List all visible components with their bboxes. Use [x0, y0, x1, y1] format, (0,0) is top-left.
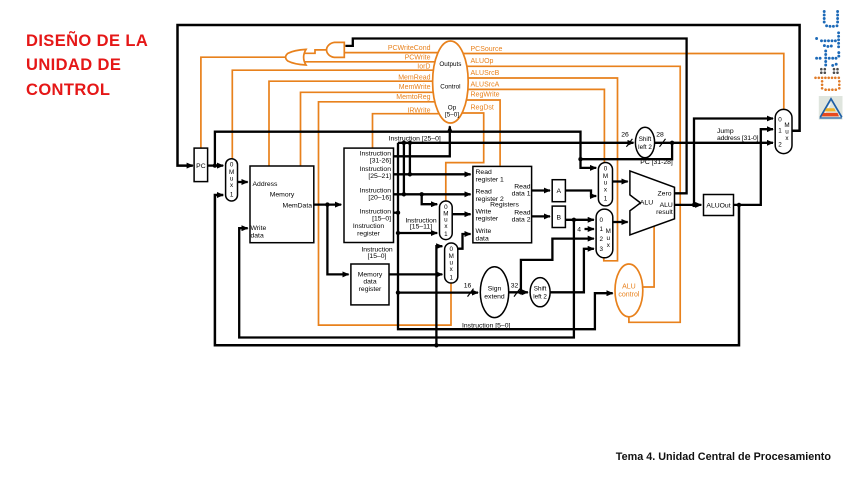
wire constant 4 to ALUSrcB mux input 1 [585, 228, 594, 230]
svg-text:Instruction: Instruction [360, 188, 392, 195]
wire PC bus (PC up over top to ALUSrcA and PC[31-28]) [215, 132, 581, 166]
wire ALUOut output to PC source mux input 1 [734, 129, 774, 205]
wire B register to memory write data [239, 220, 574, 338]
svg-text:0: 0 [604, 166, 608, 173]
svg-text:data: data [363, 279, 376, 286]
svg-text:register: register [359, 286, 382, 293]
wire read data 2 to B register [532, 215, 550, 217]
wire PCWriteCond (control to AND gate) [345, 52, 440, 54]
wire ALUSrcB (control to ALUSrcB mux bottom) [465, 78, 618, 261]
svg-text:Registers: Registers [490, 202, 519, 209]
OR gate (PCWrite | AND) [286, 49, 306, 65]
svg-text:Memory: Memory [270, 192, 295, 199]
svg-text:Read: Read [476, 169, 492, 176]
svg-text:ALU: ALU [660, 202, 673, 209]
wire Instruction[20-16] to read register 2 [394, 193, 471, 195]
ALUOut register [704, 195, 734, 216]
svg-text:MemRead: MemRead [398, 74, 430, 81]
wire shift left 2 output to ALUSrcB mux input 3 [550, 249, 594, 292]
svg-text:[25–21]: [25–21] [368, 173, 391, 180]
svg-text:4: 4 [577, 227, 581, 234]
oval shift left 2 (ALU src) [530, 278, 550, 307]
wire sign extend output to shift left 2 [509, 291, 528, 293]
svg-text:IorD: IorD [417, 63, 430, 70]
footer [616, 451, 831, 463]
svg-text:Jump: Jump [717, 128, 734, 135]
svg-text:[20–16]: [20–16] [368, 195, 391, 202]
wire MemtoReg (control to MemtoReg mux bottom) [319, 102, 452, 325]
svg-text:ALUSrcB: ALUSrcB [471, 70, 500, 77]
svg-text:Read: Read [476, 189, 492, 196]
wire ALUOut to MemtoReg mux input 0 [436, 246, 442, 345]
svg-text:32: 32 [511, 283, 519, 290]
svg-text:register: register [357, 230, 380, 237]
svg-text:Write: Write [251, 225, 267, 232]
svg-text:3: 3 [600, 246, 604, 253]
svg-text:B: B [557, 215, 562, 222]
wire memory data register output to MemtoReg mux input 1 [389, 273, 442, 275]
svg-text:IRWrite: IRWrite [407, 108, 430, 115]
wire PCWrite (control to OR gate) [304, 61, 437, 63]
mux RegDst [440, 201, 453, 240]
title [26, 29, 148, 103]
svg-text:[31-26]: [31-26] [370, 157, 391, 164]
wire PC source mux output loop (mux output around top to PC input) [178, 25, 800, 166]
wire MemRead (control to memory top) [269, 81, 434, 165]
B register [552, 206, 565, 227]
wire ALUSrcA (control to ALUSrcA mux top) [463, 89, 604, 162]
svg-text:MemWrite: MemWrite [399, 84, 431, 91]
svg-text:data 1: data 1 [512, 191, 531, 198]
svg-text:address [31-0]: address [31-0] [717, 135, 759, 142]
wire Zero to AND gate [345, 39, 686, 194]
svg-text:A: A [557, 188, 562, 195]
A register [552, 180, 565, 202]
wire IorD (control to IorD mux top) [232, 70, 435, 158]
svg-text:Address: Address [253, 181, 279, 188]
svg-text:left 2: left 2 [533, 294, 547, 301]
svg-text:Instruction: Instruction [360, 166, 392, 173]
svg-text:RegWrite: RegWrite [471, 92, 500, 99]
logo dark dot clusters [820, 68, 839, 74]
wire A register to ALUSrcA mux input 1 [565, 191, 596, 197]
svg-text:16: 16 [464, 283, 472, 290]
wire MemWrite (control to memory top) [301, 92, 437, 165]
mux MemtoReg [445, 243, 458, 283]
svg-text:[15–0]: [15–0] [368, 253, 387, 260]
oval ALU control [615, 264, 643, 317]
logo dotted glyph 2 (blue) [815, 31, 840, 48]
wire ALU result to ALUOut register [675, 204, 702, 206]
svg-text:result: result [656, 209, 673, 216]
svg-text:PCSource: PCSource [471, 46, 503, 53]
svg-text:1: 1 [778, 127, 782, 134]
svg-text:2: 2 [778, 142, 782, 149]
svg-text:26: 26 [621, 132, 629, 139]
svg-text:28: 28 [656, 132, 664, 139]
label Instruction [15-11] [405, 217, 437, 230]
memory box [250, 166, 314, 243]
svg-text:PCWrite: PCWrite [405, 55, 431, 62]
oval sign extend [480, 267, 508, 318]
svg-text:PC [31-28]: PC [31-28] [640, 159, 673, 166]
wire RegWrite (control to registers top) [460, 100, 500, 166]
memory data register box [351, 264, 389, 305]
wire AND output to OR input [305, 50, 327, 53]
svg-text:PCWriteCond: PCWriteCond [388, 45, 431, 52]
wire ALUSrcB mux output to ALU [613, 221, 628, 223]
wire IorD mux output to memory address [238, 181, 248, 183]
svg-text:0: 0 [449, 246, 453, 253]
wire Instruction[15-0] riser and Instruction[5-0] to ALU control [398, 143, 613, 329]
wire ALUSrcA mux output to ALU [613, 180, 628, 182]
svg-text:left 2: left 2 [638, 144, 652, 151]
svg-text:[15–0]: [15–0] [372, 216, 391, 223]
svg-text:Write: Write [476, 208, 492, 215]
svg-text:Instruction: Instruction [353, 223, 385, 230]
wire ALU result to PC source mux input 0 [694, 119, 773, 205]
ALU [630, 171, 675, 235]
svg-text:Instruction [5–0]: Instruction [5–0] [462, 322, 510, 329]
svg-text:1: 1 [449, 274, 453, 281]
control unit oval [433, 41, 469, 123]
svg-text:Outputs: Outputs [439, 61, 461, 68]
mux ALUSrcA [598, 163, 612, 206]
mux PC source [775, 109, 792, 153]
logo dotted glyph U (blue) [823, 10, 839, 28]
svg-text:register: register [476, 216, 499, 223]
svg-text:MemData: MemData [283, 203, 313, 210]
svg-text:Zero: Zero [658, 191, 672, 198]
wire Instruction[15-0] to sign extend [398, 291, 478, 293]
wire MemData to instruction register [314, 203, 341, 205]
wire Instruction[25-0] into shift left 2 [398, 142, 634, 144]
instruction register box [344, 148, 394, 242]
AND gate (PCWriteCond & Zero) [327, 42, 345, 57]
svg-text:register 1: register 1 [476, 176, 505, 183]
svg-text:Instruction: Instruction [360, 150, 392, 157]
svg-text:1: 1 [230, 191, 234, 198]
svg-text:0: 0 [600, 217, 604, 224]
svg-text:0: 0 [230, 162, 234, 169]
mux ALUSrcB [596, 209, 613, 258]
svg-text:Read: Read [514, 209, 530, 216]
svg-text:Shift: Shift [534, 286, 547, 293]
wire RegDst mux output to write register [452, 213, 470, 215]
wire Instruction[31-26] to control (Op[5-0]) [394, 126, 450, 156]
PC register [194, 148, 208, 182]
wire riser Instruction[25-21] tap [409, 143, 411, 175]
svg-text:PC: PC [196, 163, 206, 170]
svg-text:ALU: ALU [622, 283, 636, 290]
svg-text:Op: Op [448, 104, 457, 111]
wire MemData to memory data register [327, 205, 348, 275]
wire Instruction[20-16] branch to RegDst mux input 0 [422, 194, 438, 204]
wire Instruction[15-11] to RegDst mux input 1 [398, 232, 437, 234]
wire MemtoReg mux output to write data [458, 234, 471, 249]
svg-text:Control: Control [440, 83, 460, 90]
wire B register to ALUSrcB mux input 0 [565, 219, 594, 221]
svg-text:1: 1 [604, 196, 608, 203]
wire sign extend output to ALUSrcB mux input 2 [521, 239, 594, 293]
label Instruction [15-0] below IR [361, 247, 393, 261]
wire PC output to IorD mux input 0 [208, 164, 224, 166]
svg-text:extend: extend [484, 294, 505, 301]
wire ALU control output (ALU control oval to ALU bottom) [642, 226, 654, 287]
logo dotted glyph 3 (blue) [815, 50, 840, 67]
svg-text:Instruction [25–0]: Instruction [25–0] [389, 135, 441, 142]
svg-text:RegDst: RegDst [471, 104, 494, 111]
wire riser Instruction[20-16] tap [403, 143, 405, 195]
svg-text:control: control [618, 291, 639, 298]
svg-text:data: data [476, 236, 489, 243]
wire jump address (shift left 2 output to PC source mux input 2) [655, 142, 773, 144]
svg-text:ALU: ALU [640, 200, 653, 207]
svg-text:data: data [251, 233, 264, 240]
svg-text:ALUOp: ALUOp [471, 58, 494, 65]
registers box [473, 166, 532, 242]
wire ALUOp (control to ALU control oval) [465, 66, 680, 322]
wire RegDst (control to RegDst mux top) [446, 113, 484, 201]
svg-text:1: 1 [444, 231, 448, 238]
svg-text:0: 0 [778, 116, 782, 123]
svg-text:Memory: Memory [358, 271, 383, 278]
wire PC[31-28] to jump address join [581, 143, 673, 159]
wire PC write enable (OR gate output to PC top) [201, 57, 286, 147]
logo orange dotted glyph [814, 77, 840, 91]
logo triangle emblem [819, 96, 843, 120]
svg-text:ALUSrcA: ALUSrcA [471, 82, 500, 89]
wire Instruction[15-0] output stub [394, 212, 400, 214]
wire PCSource (control to PC source mux top) [461, 54, 784, 110]
svg-text:Shift: Shift [639, 136, 652, 143]
svg-text:1: 1 [600, 226, 604, 233]
bit width ticks [468, 139, 666, 297]
wire IRWrite (control to instruction register top) [373, 114, 442, 148]
wire read data 1 to A register [532, 189, 550, 191]
svg-text:Sign: Sign [488, 286, 502, 293]
wire PC to ALUSrcA mux input 0 [581, 159, 597, 168]
svg-text:Read: Read [514, 183, 530, 190]
svg-text:2: 2 [600, 236, 604, 243]
svg-text:data 2: data 2 [512, 217, 531, 224]
svg-text:[15–11]: [15–11] [410, 224, 432, 231]
svg-text:Write: Write [476, 228, 492, 235]
wire ALUOut bottom loop [215, 195, 739, 345]
wire Instruction[25-21] to read register 1 [394, 173, 471, 175]
svg-text:[5–0]: [5–0] [445, 112, 459, 119]
oval shift left 2 (jump) [635, 127, 654, 158]
svg-text:MemtoReg: MemtoReg [396, 94, 430, 101]
svg-text:ALUOut: ALUOut [706, 202, 730, 209]
svg-text:Instruction: Instruction [360, 209, 392, 216]
mux IorD [226, 159, 238, 201]
